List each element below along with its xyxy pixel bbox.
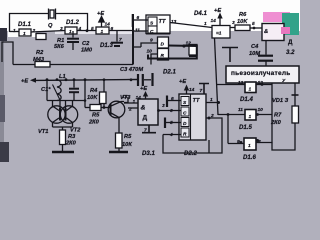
- svg-text:C: C: [183, 111, 187, 117]
- svg-text:D4.1: D4.1: [194, 10, 207, 17]
- wire D1.1 out to D1.2 in: [31, 31, 65, 33]
- svg-text:VD1 З: VD1 З: [272, 98, 289, 104]
- crystal Q wires: [56, 14, 88, 31]
- svg-text:2: 2: [210, 113, 214, 119]
- FF1 Q12 thick loop: [148, 46, 197, 59]
- svg-text:2К0: 2К0: [65, 141, 77, 147]
- svg-text:L1: L1: [59, 74, 66, 80]
- svg-text:1: 1: [133, 99, 136, 105]
- svg-text:пьезоизлучатель: пьезоизлучатель: [231, 70, 290, 77]
- svg-text:13: 13: [238, 80, 244, 86]
- resistor R6: [235, 25, 250, 31]
- svg-text:9: 9: [237, 139, 240, 145]
- inverter D1.4: [217, 84, 273, 86]
- svg-text:+E: +E: [21, 79, 28, 85]
- svg-text:+E: +E: [179, 79, 186, 85]
- svg-text:R7: R7: [274, 113, 282, 119]
- svg-text:C3 470М: C3 470М: [120, 67, 143, 73]
- svg-text:VT1: VT1: [38, 129, 48, 135]
- resistor R1: [36, 34, 46, 40]
- svg-text:R5: R5: [124, 134, 132, 140]
- capacitor C2: [67, 31, 79, 50]
- svg-text:3: 3: [170, 108, 173, 114]
- svg-text:C2: C2: [82, 41, 90, 47]
- svg-text:10K: 10K: [237, 19, 248, 25]
- svg-text:D1.2: D1.2: [66, 19, 79, 26]
- svg-text:13: 13: [171, 19, 177, 25]
- svg-text:1: 1: [249, 87, 252, 93]
- svg-text:D1.4: D1.4: [240, 96, 253, 103]
- svg-text:1: 1: [23, 31, 26, 37]
- component box below D4.1: [189, 45, 197, 56]
- svg-text:М43: М43: [33, 57, 45, 63]
- transistor VT1: [48, 106, 65, 123]
- svg-text:11: 11: [238, 107, 243, 113]
- colored marks top right: [263, 12, 290, 22]
- svg-text:3: 3: [162, 103, 165, 109]
- +E bus wire: [35, 79, 137, 82]
- flip-flop D2.2 (TT): [179, 94, 206, 140]
- bus junction dots: [46, 78, 49, 81]
- resistor R5: [90, 105, 101, 111]
- svg-text:D1.6: D1.6: [243, 154, 256, 161]
- wire FF1 output 13 to D4.1: [170, 23, 212, 28]
- svg-text:+E: +E: [97, 11, 104, 17]
- svg-text:6: 6: [137, 15, 140, 21]
- svg-text:1: 1: [69, 29, 72, 35]
- resistor R5b 10K: [116, 133, 123, 148]
- FF1 pin wires: [133, 14, 158, 65]
- wire D1.2 out to D1.3 in: [77, 30, 96, 32]
- svg-text:1М0: 1М0: [81, 48, 93, 54]
- wire: long vertical from D1.3 out down to R2 wire: [132, 14, 134, 65]
- node 5: [253, 27, 256, 30]
- wire D1.3 out: [109, 30, 133, 32]
- node vertical D4.1 pin2 / FF2 out1 / inverter inputs: [215, 38, 219, 115]
- inverter D1.3: [96, 27, 109, 34]
- svg-text:R6: R6: [239, 12, 247, 18]
- gnd T symbol below D4.1: [222, 48, 238, 63]
- svg-text:D: D: [161, 42, 165, 48]
- cell R of D2.1: [158, 49, 169, 61]
- capacitor pin7 of D1: [111, 31, 123, 47]
- FF2 input wires: [158, 96, 181, 135]
- transistor VT2: [60, 106, 77, 123]
- svg-text:R3: R3: [68, 134, 76, 140]
- svg-text:TT: TT: [159, 19, 166, 25]
- svg-text:Д: Д: [143, 115, 148, 122]
- resistor R3: [60, 130, 66, 145]
- svg-text:11: 11: [135, 28, 140, 34]
- svg-text:D1.5: D1.5: [239, 124, 252, 131]
- svg-text:1: 1: [248, 143, 251, 149]
- left edge scan artifacts: [0, 28, 4, 162]
- svg-text:D2.1: D2.1: [163, 69, 176, 76]
- svg-text:D3.1: D3.1: [142, 150, 155, 157]
- svg-text:1: 1: [13, 28, 16, 34]
- node: crystal feedback junction: [86, 29, 89, 32]
- gate D3.2: [262, 24, 284, 41]
- svg-text:6: 6: [171, 96, 174, 102]
- piezo box: [226, 66, 299, 83]
- svg-text:D2.2: D2.2: [184, 150, 197, 157]
- svg-text:3: 3: [60, 26, 63, 32]
- svg-text:7: 7: [200, 88, 203, 94]
- svg-text:3.2: 3.2: [286, 49, 295, 56]
- svg-text:Д: Д: [288, 39, 293, 46]
- svg-text:&: &: [141, 105, 146, 112]
- svg-text:5: 5: [252, 21, 255, 27]
- crystal Q: [49, 9, 56, 20]
- svg-text:R: R: [183, 132, 187, 138]
- svg-text:10К: 10К: [122, 142, 132, 148]
- svg-text:14: 14: [136, 95, 142, 101]
- inverter D1.2: [65, 27, 77, 34]
- svg-text:2К0: 2К0: [270, 120, 282, 126]
- svg-text:+E: +E: [140, 86, 147, 92]
- svg-text:14: 14: [105, 22, 111, 28]
- and gate D3.1: [138, 99, 158, 125]
- svg-text:4: 4: [169, 132, 173, 138]
- svg-text:D1.1: D1.1: [18, 21, 31, 28]
- svg-text:6: 6: [111, 26, 114, 32]
- svg-text:VT2: VT2: [70, 128, 81, 134]
- svg-text:1: 1: [101, 29, 104, 35]
- white top margin: [0, 0, 300, 31]
- inverter D1.6: [228, 83, 272, 144]
- svg-text:7: 7: [119, 37, 122, 43]
- node: FF1 pin 12 junction: [182, 44, 185, 47]
- svg-text:R2: R2: [36, 50, 44, 56]
- wire D1.1 input: [10, 31, 20, 33]
- FF2 outputs: [163, 103, 222, 154]
- svg-text:10K: 10K: [87, 95, 98, 101]
- svg-text:Q: Q: [48, 23, 53, 29]
- svg-text:5К6: 5К6: [54, 44, 65, 50]
- svg-text:1: 1: [210, 97, 213, 103]
- capacitor C3: [138, 73, 153, 86]
- resistor R2: [13, 64, 35, 66]
- page background: [0, 0, 300, 162]
- svg-text:&: &: [264, 29, 268, 35]
- svg-text:5: 5: [91, 26, 94, 32]
- left edge connector rectangle: [2, 42, 13, 65]
- wire R2 to FF node: [50, 64, 133, 66]
- svg-text:VT3: VT3: [120, 95, 131, 101]
- cell D of D2.1: [158, 37, 169, 48]
- flip-flop D2.1 (TT): [146, 15, 170, 34]
- svg-text:R5: R5: [92, 113, 100, 119]
- svg-text:10: 10: [258, 107, 264, 113]
- wire D4.1 out to R6: [230, 27, 235, 29]
- svg-text:10: 10: [147, 49, 153, 55]
- tank bottom wire: [47, 80, 90, 108]
- svg-text:1: 1: [249, 114, 252, 120]
- wire top feedback loop: [10, 14, 49, 33]
- wire R6 to D3.2: [250, 27, 262, 29]
- svg-text:TT: TT: [193, 98, 200, 104]
- svg-text:=1: =1: [216, 31, 222, 37]
- svg-text:C1*: C1*: [41, 87, 51, 93]
- svg-text:5: 5: [170, 120, 173, 126]
- svg-text:D: D: [183, 121, 187, 127]
- inverter D1.1: [19, 29, 31, 36]
- svg-text:14: 14: [211, 18, 217, 24]
- svg-text:R4: R4: [90, 88, 98, 94]
- D3.1 output: [157, 109, 160, 112]
- svg-text:14: 14: [189, 87, 195, 93]
- svg-text:2К0: 2К0: [88, 120, 100, 126]
- svg-text:1: 1: [204, 21, 207, 27]
- svg-text:2: 2: [32, 28, 36, 34]
- inverter D1.5: [218, 114, 272, 116]
- svg-text:C4: C4: [251, 44, 259, 50]
- svg-text:9: 9: [150, 38, 153, 44]
- resistor R7: [292, 106, 299, 123]
- svg-text:4: 4: [78, 26, 82, 32]
